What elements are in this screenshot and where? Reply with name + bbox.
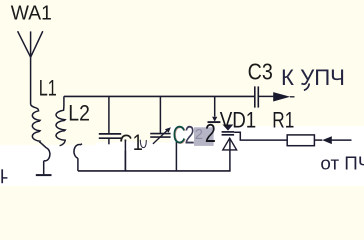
wire R1 to arrow	[314, 139, 322, 141]
VD1 anode line down	[229, 138, 231, 171]
antenna WA1 right arm	[31, 31, 43, 57]
arrow to K UPCH filled	[273, 92, 290, 101]
arrow from PCH filled left	[322, 136, 332, 144]
varicap VD1 wire to R1 row	[234, 132, 287, 140]
wire L1 to lower loop	[40, 142, 47, 148]
arrow tail K UPCH	[290, 96, 295, 98]
svg-text:L1: L1	[39, 76, 57, 101]
capacitor C2 plate top	[150, 133, 170, 135]
wire node X1 repaint over patch	[124, 140, 126, 171]
varicap VD1 plate bar 1	[222, 131, 235, 133]
svg-text:2: 2	[195, 126, 203, 143]
white panel right	[170, 126, 364, 186]
wire arrow to right edge	[332, 139, 352, 141]
svg-text:C3: C3	[248, 59, 273, 85]
bottom bus wire	[78, 170, 231, 172]
antenna WA1 left arm	[18, 31, 31, 57]
hidden glyph U shape	[140, 140, 146, 148]
secondary winding half-loop	[74, 144, 82, 158]
svg-text:WA1: WA1	[11, 3, 52, 25]
resistor R1 body	[287, 135, 314, 146]
capacitor C2 arrowhead	[165, 127, 171, 132]
inductor L2	[56, 110, 65, 146]
letter Ch fragment bottom left vertical	[1, 169, 3, 183]
varicap VD1 top stub	[214, 96, 216, 116]
varicap VD1 triangle outline	[223, 138, 237, 150]
lower winding loop	[44, 148, 50, 161]
capacitor C2 top stub	[159, 96, 161, 133]
varicap VD1 plate bar 2	[222, 134, 235, 136]
top bus wire	[64, 95, 254, 97]
background cream	[0, 0, 364, 186]
svg-text:2: 2	[185, 122, 195, 150]
capacitor C2 plate bottom	[150, 136, 170, 138]
svg-text:VD1: VD1	[220, 108, 257, 133]
antenna WA1 middle arm	[30, 31, 32, 57]
inductor L2 top corner from bus	[63, 96, 65, 110]
white panel mid	[96, 143, 236, 186]
ground stem	[43, 161, 45, 175]
white panel bottom-left	[0, 145, 364, 186]
label K UPCH U-descender tail	[304, 84, 309, 91]
svg-text:R1: R1	[272, 108, 294, 133]
letter Ch fragment bottom left bar	[2, 177, 7, 179]
capacitor C2 variable arrow shaft	[153, 129, 168, 144]
capacitor C1 plate top	[99, 133, 121, 135]
svg-text:К УПЧ: К УПЧ	[281, 65, 345, 90]
capacitor C1 plate bottom	[99, 137, 121, 139]
capacitor C3 plate left	[254, 86, 256, 107]
varicap VD1 small triangle top	[212, 117, 217, 122]
wire antenna feed down	[30, 57, 32, 104]
white patch clipping C1	[118, 142, 134, 151]
ground bar	[36, 174, 52, 176]
capacitor C1 bottom stub	[108, 139, 110, 144]
capacitor C1 top stub	[108, 96, 110, 133]
selection grey box	[194, 127, 214, 146]
wire loop to bottom bus	[77, 158, 79, 171]
wire C3 to arrow	[259, 95, 274, 97]
svg-text:L2: L2	[68, 101, 90, 126]
inductor L1	[31, 105, 40, 143]
svg-text:2: 2	[205, 120, 216, 148]
varicap VD1 filled triangle down	[223, 125, 234, 131]
wire node X2 to bottom bus	[175, 142, 177, 171]
wire node X1 to bottom bus	[124, 140, 126, 171]
varicap VD1 cathode bar top	[208, 121, 221, 123]
capacitor C3 plate right	[257, 86, 259, 107]
svg-text:от ПЧ: от ПЧ	[320, 153, 364, 173]
